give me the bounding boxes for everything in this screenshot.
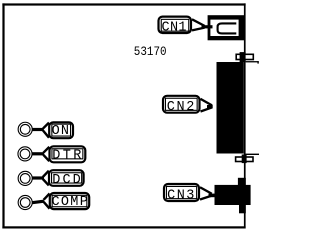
- leader COMP: [32, 194, 50, 209]
- label COMP: [50, 193, 89, 210]
- leader ON: [32, 123, 49, 138]
- svg-text:DTR: DTR: [52, 148, 84, 163]
- leader DCD: [32, 171, 49, 186]
- svg-text:DCD: DCD: [52, 173, 82, 188]
- svg-text:CN2: CN2: [167, 100, 196, 115]
- bracket line top: [246, 61, 259, 64]
- leader CN3: [200, 187, 215, 199]
- label DCD: [49, 170, 84, 188]
- LED ON: [18, 122, 32, 136]
- svg-text:53170: 53170: [134, 44, 167, 59]
- jackscrew top: [236, 52, 253, 62]
- label CN1: [159, 17, 192, 36]
- connector CN2: [217, 62, 244, 154]
- svg-text:CN3: CN3: [167, 188, 196, 203]
- leader CN1: [192, 19, 213, 30]
- connector CN1: [208, 15, 245, 40]
- label CN3: [164, 184, 199, 203]
- svg-text:ON: ON: [52, 124, 71, 139]
- LED DTR: [18, 147, 32, 161]
- leader CN2: [201, 99, 213, 112]
- LED DCD: [18, 171, 32, 185]
- jackscrew bottom: [236, 155, 253, 164]
- bracket line bottom: [244, 154, 259, 155]
- board outline: [2, 3, 245, 228]
- leader DTR: [32, 147, 50, 161]
- connector CN3: [215, 178, 251, 214]
- LED COMP: [18, 195, 32, 209]
- label CN2: [163, 96, 200, 115]
- svg-text:CN1: CN1: [162, 20, 187, 35]
- svg-text:COMP: COMP: [52, 195, 90, 210]
- label DTR: [50, 146, 86, 163]
- label ON: [49, 122, 73, 139]
